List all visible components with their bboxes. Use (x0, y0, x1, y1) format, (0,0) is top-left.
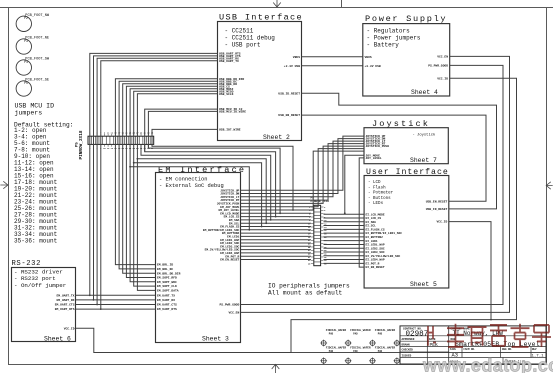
svg-text:FIDCIAL_WAFER: FIDCIAL_WAFER (350, 346, 371, 349)
svg-text:ISSUED: ISSUED (402, 354, 412, 357)
svg-text:EM_UART_RX: EM_UART_RX (56, 299, 74, 302)
svg-text:PCB_FOOT_NE: PCB_FOOT_NE (25, 37, 49, 41)
note IO peripherals jumpers (268, 282, 350, 296)
crop stub on top border (341, 0, 343, 7)
svg-text:SIZE: SIZE (450, 348, 457, 351)
svg-text:VCC_ID: VCC_ID (436, 221, 447, 224)
svg-text:IO peripherals jumpers: IO peripherals jumpers (268, 282, 350, 289)
pcb foot P5 PCB_FOOT_SE (16, 79, 49, 97)
svg-text:EM_BRL_DC: EM_BRL_DC (157, 268, 173, 271)
svg-text:EM_BRL_ID: EM_BRL_ID (157, 264, 173, 267)
svg-text:EI_LED2_SOC: EI_LED2_SOC (366, 247, 385, 250)
svg-text:JOYSTICK_PUSH: JOYSTICK_PUSH (366, 145, 390, 148)
block User Interface (Sheet 5) (364, 167, 449, 288)
wire JOY_MOVE (345, 155, 364, 213)
svg-text:- Potmeter: - Potmeter (368, 192, 394, 196)
svg-text:PS_PWR_GOOD: PS_PWR_GOOD (219, 304, 239, 307)
svg-text:PS_PWR_GOOD: PS_PWR_GOOD (428, 65, 448, 68)
svg-text:EM_SOPT_CLK: EM_SOPT_CLK (157, 285, 177, 288)
svg-text:- CC2511: - CC2511 (225, 28, 254, 35)
svg-text:EI_LED1_WAP: EI_LED1_WAP (366, 244, 385, 247)
pcb foot P3 PCB_FOOT_NE (16, 37, 49, 55)
block Joystick (Sheet 7) (364, 119, 448, 164)
svg-text:- Power jumpers: - Power jumpers (367, 35, 421, 42)
note default settings list (14, 122, 73, 245)
svg-text:PAD: PAD (378, 350, 383, 353)
svg-text:REV: REV (532, 348, 537, 351)
frame center mark arrow right (546, 182, 553, 189)
block U2 USB Interface (Sheet 2) (218, 13, 303, 141)
wire branch VCC_ID to UI (449, 222, 491, 320)
pcb foot P2 PCB_FOOT_NW (16, 14, 50, 32)
svg-text:VCC_ID: VCC_ID (437, 77, 448, 80)
svg-text:VCC_EN: VCC_EN (228, 312, 239, 315)
pcb foot P4 PCB_FOOT_SW (16, 58, 50, 76)
svg-text:- CC2511 debug: - CC2511 debug (225, 35, 276, 42)
svg-text:jumpers: jumpers (15, 109, 43, 116)
svg-text:EI_BUTTON2: EI_BUTTON2 (366, 236, 384, 239)
fiducial footprints (320, 329, 400, 364)
svg-text:EI_BUTTON/EI_LED1_SOC: EI_BUTTON/EI_LED1_SOC (366, 231, 403, 235)
svg-text:- EM connection: - EM connection (159, 177, 208, 183)
svg-text:USB_MCU_ID_WIRE: USB_MCU_ID_WIRE (219, 111, 246, 114)
wire bus USB UART to RS-232/EM (4 nets) (76, 53, 218, 310)
svg-text:- LCD: - LCD (368, 181, 381, 185)
svg-text:Sheet 2: Sheet 2 (263, 134, 290, 141)
svg-text:- Battery: - Battery (367, 42, 400, 49)
svg-text:35-36: mount: 35-36: mount (14, 238, 57, 245)
svg-text:EI_LED1: EI_LED1 (366, 240, 378, 243)
svg-text:Power Supply: Power Supply (365, 14, 447, 24)
svg-text:VBUS: VBUS (293, 56, 300, 59)
svg-text:- External SoC debug: - External SoC debug (159, 183, 224, 189)
svg-text:PAD: PAD (353, 350, 358, 353)
svg-text:PCB_FOOT_SW: PCB_FOOT_SW (25, 58, 50, 62)
svg-text:FIDCIAL_WAFER: FIDCIAL_WAFER (350, 329, 371, 332)
wire PS_PWR_GOOD (241, 65, 504, 304)
wire JOY_LEVEL (359, 158, 364, 267)
svg-text:CHECKED: CHECKED (402, 349, 414, 352)
svg-text:DWG NO.: DWG NO. (502, 348, 513, 351)
svg-text:EM_UART_CTS: EM_UART_CTS (55, 304, 75, 307)
svg-text:- Regulators: - Regulators (367, 28, 411, 35)
connector P5 PINROW_2X18 (USB MCU ID jumpers) (76, 130, 155, 159)
svg-text:EI_LCD_CS: EI_LCD_CS (366, 217, 382, 220)
svg-text:EM_UART_RTS: EM_UART_RTS (55, 308, 75, 311)
svg-text:EM_SOPI_RFD: EM_SOPI_RFD (157, 277, 177, 280)
svg-text:PAD: PAD (329, 332, 334, 335)
svg-text:EM_UART_RX: EM_UART_RX (157, 299, 175, 302)
svg-text:P2: P2 (24, 16, 28, 20)
svg-text:USB_UART_TX: USB_UART_TX (219, 60, 239, 63)
svg-text:P5: P5 (76, 142, 80, 147)
svg-text:FIDCIAL_WAFER: FIDCIAL_WAFER (375, 346, 396, 349)
connector P9 PINROW_2X18 (IO peripherals jumpers) (308, 196, 329, 265)
svg-text:Sheet 3: Sheet 3 (202, 336, 229, 343)
svg-text:EI_LED3_SOC: EI_LED3_SOC (366, 251, 385, 254)
svg-text:FSCM NO.: FSCM NO. (464, 348, 476, 351)
svg-text:JOY_LEVEL: JOY_LEVEL (366, 157, 382, 160)
svg-text:- Joystick: - Joystick (413, 132, 437, 137)
svg-text:EI_SDA: EI_SDA (366, 221, 377, 224)
title block (400, 326, 546, 364)
svg-text:FIDCIAL_WAFER: FIDCIAL_WAFER (326, 346, 347, 349)
wire VCC_EN (241, 56, 510, 312)
svg-text:VBUS: VBUS (365, 56, 372, 59)
svg-text:PAD: PAD (329, 350, 334, 353)
svg-text:Sheet 6: Sheet 6 (44, 335, 71, 342)
svg-text:www.edatop.com: www.edatop.com (422, 356, 553, 373)
svg-text:DRAWN: DRAWN (402, 343, 410, 346)
wire bus P9 to User Interface (14 nets) (324, 214, 365, 263)
svg-text:PAD: PAD (353, 332, 358, 335)
svg-text:EM_BRL_DD_DIR: EM_BRL_DD_DIR (157, 272, 181, 275)
wire VBUS (302, 56, 363, 58)
svg-text:- LEDs: - LEDs (368, 202, 384, 206)
svg-text:PAD: PAD (378, 332, 383, 335)
frame center mark arrow left (0, 181, 8, 188)
svg-text:P5: P5 (24, 81, 28, 85)
svg-text:USB_EN_RESET: USB_EN_RESET (278, 114, 300, 117)
block EM Interface (Sheet 3) (156, 165, 247, 343)
wire +3.3V USB (302, 65, 363, 67)
wire net VCC_ID (76, 78, 517, 352)
svg-text:VCC_ID: VCC_ID (64, 327, 75, 330)
svg-text:- Buttons: - Buttons (368, 197, 391, 201)
svg-text:- Flash: - Flash (368, 185, 386, 190)
block RS-232 (Sheet 6) (12, 260, 76, 342)
watermark chinese chars (428, 324, 551, 347)
svg-text:+3.3V USB: +3.3V USB (365, 65, 381, 68)
note USB MCU ID jumpers (15, 103, 55, 117)
svg-text:USB_EN_RESET: USB_EN_RESET (426, 200, 448, 203)
svg-text:EI_LED4_WAP: EI_LED4_WAP (366, 259, 385, 262)
wire USB_ID_RESET (302, 93, 497, 209)
svg-text:P3: P3 (24, 39, 28, 43)
svg-text:+3.3V USB: +3.3V USB (284, 65, 300, 68)
svg-text:FIDCIAL_WAFER: FIDCIAL_WAFER (375, 329, 396, 332)
svg-text:- USB port: - USB port (225, 42, 261, 49)
svg-text:VCC_EN: VCC_EN (437, 56, 448, 59)
svg-text:EM_UART_CTS: EM_UART_CTS (157, 304, 177, 307)
svg-text:All mount as default: All mount as default (268, 290, 343, 297)
svg-text:EI_LCD_MODE: EI_LCD_MODE (366, 213, 385, 216)
svg-text:USB_ID_RESET: USB_ID_RESET (426, 208, 448, 211)
svg-text:EM_EN_RESET: EM_EN_RESET (220, 259, 239, 262)
svg-text:EI_EN_RESET: EI_EN_RESET (366, 266, 385, 269)
wire bus USB MCU ID nets to P9 (6 nets) (129, 109, 294, 231)
svg-text:PCB_FOOT_SE: PCB_FOOT_SE (25, 79, 49, 83)
svg-text:- On/Off jumper: - On/Off jumper (14, 282, 66, 289)
svg-text:EM_SOPT_WDC: EM_SOPT_WDC (157, 281, 177, 284)
frame center mark arrow bottom (272, 364, 280, 373)
svg-text:Sheet 5: Sheet 5 (410, 281, 437, 288)
frame center mark arrow top (273, 0, 281, 7)
svg-text:Sheet 4: Sheet 4 (411, 89, 438, 96)
block Power Supply (Sheet 4) (363, 14, 450, 96)
svg-text:EI_3V/YELLOW/LED_SOC: EI_3V/YELLOW/LED_SOC (366, 254, 401, 258)
svg-text:EM_SOPT_DATA: EM_SOPT_DATA (157, 290, 179, 293)
svg-text:APPROVED: APPROVED (402, 338, 415, 341)
svg-text:EI_SCL: EI_SCL (366, 225, 377, 228)
wire bus EM to P9 (15 nets) (241, 213, 311, 259)
svg-text:EI_FLASH_CS: EI_FLASH_CS (366, 228, 385, 231)
bottom inner line (94, 352, 546, 354)
svg-text:EM_UART_TX: EM_UART_TX (56, 294, 74, 297)
wire USB_EN_RESET (302, 115, 487, 201)
svg-text:USB_SCLK: USB_SCLK (219, 93, 234, 96)
wire bus USB debug/SPI to EM (7 nets) (115, 79, 217, 291)
svg-text:PINROW_2X18: PINROW_2X18 (79, 130, 84, 159)
svg-text:EM_UART_RTS: EM_UART_RTS (157, 308, 177, 311)
svg-text:USB_IO7_WIRE: USB_IO7_WIRE (219, 129, 241, 132)
svg-text:P4: P4 (24, 60, 28, 64)
page frame border (0, 7, 553, 9)
svg-text:EI_POT_R: EI_POT_R (366, 262, 380, 265)
wire bus EM to Joystick (7 nets) (241, 136, 365, 210)
svg-text:EM_UART_TX: EM_UART_TX (157, 294, 175, 297)
svg-text:FIDCIAL_WAFER: FIDCIAL_WAFER (326, 329, 347, 332)
svg-text:USB_ID_RESET: USB_ID_RESET (278, 92, 300, 95)
svg-text:Sheet 7: Sheet 7 (410, 157, 437, 164)
svg-text:PCB_FOOT_NW: PCB_FOOT_NW (25, 14, 50, 18)
